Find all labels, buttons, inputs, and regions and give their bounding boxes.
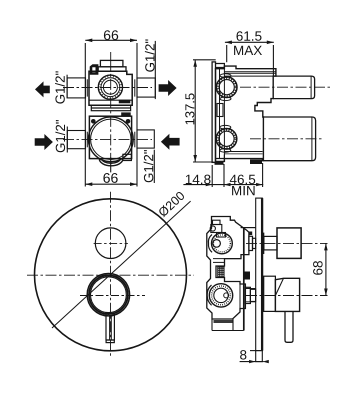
vertical centerline front view [110,52,112,172]
cartridge nut black bits [245,272,251,280]
MIN label [232,186,255,195]
handle centerline [80,295,145,297]
dimension 8 [240,351,269,364]
knob centerline [246,242,328,244]
dimension 14.8 label [186,175,211,185]
bottom right tab front view [123,154,131,160]
screw dot left [91,119,96,124]
lower pipe centerline [250,138,322,140]
top hex nuts installed view [210,220,225,237]
dimension 61.5 label [237,31,262,41]
G1/2 label right top [145,39,155,71]
lower body block front view [89,116,131,158]
neck screw detail [218,267,225,277]
lever handle rod side [285,311,293,342]
wall bracket plate side view [212,62,224,162]
bottom oval boss front view [99,159,123,166]
bracket column inner lines [217,69,223,159]
stub pipe left bottom [67,127,87,153]
stub pipe right top [135,41,156,99]
flow arrow in right bottom [161,134,180,150]
G1/2 label left top [55,71,65,103]
G1/2 label right bottom [144,150,154,182]
dimension 66 top label [104,30,118,40]
flow arrow in left bottom [35,134,53,150]
diverter knob stem side [262,233,277,254]
lever body side [275,278,299,311]
stub pipe right bottom [135,130,155,183]
diverter knob centerline [94,242,128,244]
upper cartridge sleeve to plate [249,236,256,250]
lever stem side [262,276,275,311]
bracket foot black bottom [215,161,224,164]
lower cartridge sleeve to plate [245,287,255,303]
diverter knob circle [95,228,126,259]
dimension 14.8 / 46.5 MIN [183,163,263,187]
MAX label [234,46,262,55]
valve body installed side view [207,217,256,331]
dimension 66 top [85,39,137,187]
installed upper port rings [208,233,232,254]
dimension 66 bottom [85,182,137,186]
lower outlet pipe side view [263,117,315,161]
dimension 61.5 MAX [225,41,274,77]
trim plate circle [35,199,187,351]
cartridge circles front view [88,117,133,162]
diameter leader line [52,201,191,328]
dimension 66 bottom label [103,173,117,183]
mid connection band front view [91,105,130,116]
side view upper port rings [216,74,237,101]
maker mark lower [121,112,131,116]
trim plate edge-on [256,198,263,362]
upper pipe centerline [240,86,330,88]
upper ports centerline [63,87,152,89]
diverter port circles front view [98,75,122,99]
lower ports centerline [63,138,152,140]
dimension 46.5 label [230,175,255,185]
upper outlet pipe side view [273,76,314,99]
diameter label [157,191,185,218]
flow arrow out left top [35,81,50,97]
dimension 137.5 [193,60,216,162]
valve body side view outline [216,66,276,161]
plate horizontal centerline [27,274,194,276]
lever centerline [246,295,328,297]
maker mark upper [119,100,131,104]
dimension 8 label [240,350,246,360]
installed lower port rings [207,284,233,307]
dimension 137.5 label [185,93,194,124]
stub pipe left top [67,75,87,98]
upper body block front view [89,71,132,105]
plate vertical centerline [110,192,112,358]
side view lower port rings [216,125,237,152]
top cap front view [98,60,126,71]
dimension 68 label [313,261,323,275]
dimension 68 [324,243,328,295]
diverter knob side [277,228,301,259]
G1/2 label left bottom [55,120,65,152]
handle lever rod [106,314,114,343]
handle escutcheon rings [87,274,129,316]
mounting tab black top-left [90,64,99,75]
flow arrow out right top [159,80,177,96]
screw dot right [126,119,131,124]
